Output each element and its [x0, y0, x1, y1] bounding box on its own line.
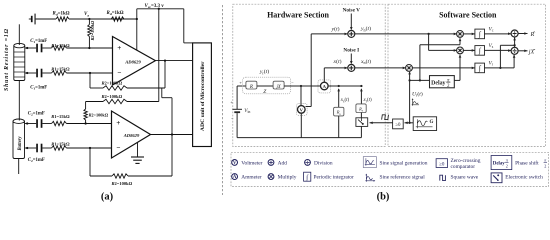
svg-text:Noise I: Noise I	[343, 48, 359, 54]
svg-text:Va: Va	[84, 12, 89, 17]
svg-text:2: 2	[544, 163, 546, 168]
svg-text:R2=100kΩ: R2=100kΩ	[89, 112, 109, 117]
svg-text:Delay: Delay	[431, 80, 445, 86]
svg-text:Multiply: Multiply	[278, 175, 297, 181]
svg-text:yr(t): yr(t)	[259, 68, 269, 75]
svg-text:V: V	[233, 161, 237, 166]
svg-text:Division: Division	[314, 160, 333, 166]
svg-text:Battery: Battery	[18, 136, 23, 152]
svg-text:C2=1mF: C2=1mF	[28, 158, 45, 163]
svg-text:AD8629: AD8629	[124, 59, 141, 64]
svg-text:Sine signal generation: Sine signal generation	[380, 160, 428, 166]
svg-text:Phase shift: Phase shift	[515, 159, 539, 166]
svg-text:Periodic integrator: Periodic integrator	[314, 175, 354, 181]
svg-text:C1=1mF: C1=1mF	[30, 85, 47, 90]
svg-text:C2=1mF: C2=1mF	[28, 111, 45, 116]
svg-text:(b): (b)	[377, 192, 390, 203]
svg-text:−: −	[116, 144, 120, 152]
svg-text:+: +	[230, 100, 233, 105]
svg-text:A: A	[233, 175, 237, 180]
svg-text:−: −	[117, 69, 121, 77]
svg-text:R1=15kΩ: R1=15kΩ	[51, 114, 70, 119]
svg-text:R1=15kΩ: R1=15kΩ	[51, 67, 70, 72]
svg-text:Noise V: Noise V	[343, 8, 361, 14]
svg-text:Sine reference signal: Sine reference signal	[380, 174, 426, 181]
svg-text:Voltmeter: Voltmeter	[241, 160, 262, 166]
svg-text:xr(t): xr(t)	[363, 98, 373, 103]
svg-text:AD8629: AD8629	[123, 133, 140, 138]
svg-text:Electronic switch: Electronic switch	[505, 175, 543, 181]
svg-text:jX̂: jX̂	[528, 48, 536, 55]
svg-text:y(t): y(t)	[331, 25, 340, 32]
svg-text:xn(t): xn(t)	[360, 58, 371, 65]
svg-text:G: G	[430, 120, 434, 125]
svg-text:R2=100kΩ: R2=100kΩ	[102, 94, 123, 99]
svg-text:2: 2	[506, 163, 508, 168]
svg-text:≥0: ≥0	[395, 123, 401, 128]
svg-text:x(t): x(t)	[333, 58, 342, 65]
svg-text:Shunt Resistor =1Ω: Shunt Resistor =1Ω	[4, 28, 10, 91]
svg-text:Rd=1kΩ: Rd=1kΩ	[53, 11, 70, 16]
svg-text:C1=1mF: C1=1mF	[30, 39, 47, 44]
svg-text:xs(t): xs(t)	[340, 98, 350, 103]
svg-text:R2=100kΩ: R2=100kΩ	[90, 20, 95, 40]
svg-text:Hardware Section: Hardware Section	[267, 11, 329, 20]
svg-text:comparator: comparator	[451, 164, 476, 170]
svg-text:R: R	[249, 85, 253, 90]
svg-text:+: +	[116, 119, 120, 127]
svg-text:R1=15kΩ: R1=15kΩ	[51, 141, 70, 146]
svg-text:ADC unit of Microcontroller: ADC unit of Microcontroller	[200, 61, 206, 131]
svg-text:yn(t): yn(t)	[360, 25, 371, 32]
svg-text:Ammeter: Ammeter	[241, 175, 262, 181]
svg-text:Square wave: Square wave	[451, 175, 479, 181]
svg-text:R2=100kΩ: R2=100kΩ	[112, 181, 133, 186]
svg-text:Software Section: Software Section	[439, 11, 497, 20]
svg-text:Ur(t): Ur(t)	[412, 90, 423, 97]
svg-text:≥0: ≥0	[439, 162, 445, 167]
svg-text:Rd=1kΩ: Rd=1kΩ	[107, 11, 124, 16]
svg-text:Delay: Delay	[493, 162, 506, 167]
svg-text:Add: Add	[278, 160, 288, 166]
svg-text:R1=15kΩ: R1=15kΩ	[51, 43, 70, 48]
svg-text:R2=100kΩ: R2=100kΩ	[102, 81, 123, 86]
svg-text:+: +	[117, 44, 121, 52]
svg-text:(a): (a)	[101, 192, 114, 203]
